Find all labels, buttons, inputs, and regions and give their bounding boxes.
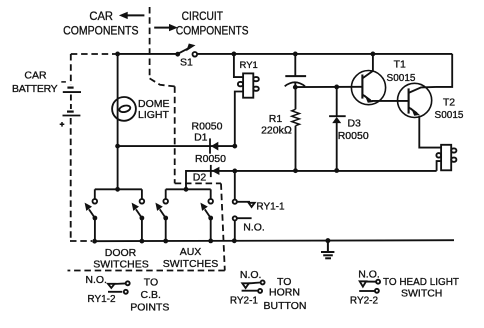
node capacitor top junction bbox=[293, 52, 298, 57]
node D1/column junction bbox=[232, 144, 237, 149]
node dome-top junction bbox=[115, 52, 120, 57]
svg-text:N.O.: N.O. bbox=[243, 221, 265, 233]
diode D1 bbox=[210, 138, 218, 153]
wire T1 base rail bbox=[295, 86, 362, 88]
svg-text:COMPONENTS: COMPONENTS bbox=[176, 23, 249, 37]
wire bottom dashed to rail bbox=[70, 240, 92, 242]
svg-text:S1: S1 bbox=[180, 57, 193, 69]
svg-text:BUTTON: BUTTON bbox=[264, 300, 307, 312]
wire ground rail bbox=[93, 240, 454, 241]
svg-text:N.O.: N.O. bbox=[85, 274, 107, 286]
wire RY1 coil feed bbox=[234, 54, 243, 77]
diode D3 bbox=[329, 87, 346, 171]
wire D1 branch bbox=[118, 145, 235, 147]
wire top rail right of S1 bbox=[197, 53, 452, 55]
svg-text:DOOR: DOOR bbox=[105, 247, 137, 259]
wire T1 emitter to T2 base bbox=[372, 100, 409, 102]
wire aux switch rail bbox=[166, 188, 211, 190]
relay coil RY1 bbox=[238, 73, 259, 97]
wire door switch rail bbox=[95, 188, 142, 190]
contact RY1-2 bbox=[108, 281, 130, 294]
svg-text:AUX: AUX bbox=[180, 246, 202, 258]
door switch SW1 bbox=[85, 189, 98, 241]
arrow left (car side) bbox=[119, 12, 144, 19]
door switch SW2 bbox=[132, 189, 145, 241]
wire battery dashed column lower bbox=[70, 118, 72, 240]
svg-text:RY2-2: RY2-2 bbox=[350, 296, 379, 307]
svg-text:N.O.: N.O. bbox=[358, 268, 380, 280]
svg-text:D1: D1 bbox=[194, 131, 208, 143]
switch S1 bbox=[175, 44, 197, 57]
svg-text:R0050: R0050 bbox=[195, 153, 226, 165]
node R1 bottom junction bbox=[293, 168, 298, 173]
svg-text:COMPONENTS: COMPONENTS bbox=[63, 23, 138, 37]
node dome/D1 junction bbox=[115, 144, 120, 149]
lamp dome light bbox=[112, 97, 136, 121]
boundary dashed bottom horizontal bbox=[68, 270, 225, 272]
svg-text:HORN: HORN bbox=[269, 287, 300, 299]
contact RY1-1 bbox=[233, 171, 255, 241]
svg-text:POINTS: POINTS bbox=[130, 301, 169, 313]
svg-text:T2: T2 bbox=[443, 97, 455, 109]
svg-text:TO: TO bbox=[144, 276, 158, 288]
svg-text:S0015: S0015 bbox=[387, 73, 416, 84]
wire T2 emitter to RY2 bbox=[419, 116, 441, 148]
svg-text:RY1: RY1 bbox=[240, 60, 258, 71]
node dome/door rail junction bbox=[115, 187, 120, 192]
node RY1 top junction bbox=[232, 52, 237, 57]
wire top rail solid to S1 bbox=[117, 53, 177, 55]
svg-text:LIGHT: LIGHT bbox=[138, 109, 170, 121]
contact RY2-2 bbox=[359, 280, 380, 293]
svg-text:TO HEAD LIGHT: TO HEAD LIGHT bbox=[383, 276, 460, 288]
node SW1 bottom bbox=[92, 239, 97, 244]
wire RY1 coil to diode column bbox=[235, 92, 243, 145]
wire D2 branch bbox=[186, 171, 235, 189]
svg-text:S0015: S0015 bbox=[435, 110, 464, 121]
node D3 top junction bbox=[334, 85, 339, 90]
transistor T1 bbox=[351, 54, 385, 105]
wire RY2 coil to rail bbox=[437, 161, 442, 171]
svg-text:T1: T1 bbox=[394, 58, 406, 70]
ground bbox=[321, 238, 334, 258]
svg-text:BATTERY: BATTERY bbox=[12, 83, 58, 95]
svg-text:D2: D2 bbox=[193, 172, 207, 184]
svg-text:RY1-2: RY1-2 bbox=[87, 294, 116, 305]
svg-text:RY2-1: RY2-1 bbox=[230, 296, 259, 307]
battery B1 bbox=[60, 82, 81, 127]
svg-text:CAR: CAR bbox=[24, 70, 47, 82]
aux switch SW4 bbox=[200, 189, 213, 241]
wire battery dashed column bbox=[70, 54, 72, 85]
node D2/column junction bbox=[232, 169, 237, 174]
boundary dashed lower vertical bbox=[221, 183, 225, 270]
boundary dashed jog bbox=[150, 78, 175, 86]
svg-text:C.B.: C.B. bbox=[140, 289, 160, 301]
node RY1-1 bottom bbox=[232, 238, 237, 243]
node SW2 bottom bbox=[140, 239, 145, 244]
svg-text:SWITCH: SWITCH bbox=[401, 287, 442, 299]
svg-text:R1: R1 bbox=[269, 113, 283, 125]
node SW3 bottom bbox=[163, 239, 168, 244]
wire dome light column bbox=[117, 54, 119, 189]
node D3 bottom junction bbox=[334, 168, 339, 173]
svg-text:D3: D3 bbox=[347, 118, 361, 130]
diode D2 bbox=[211, 165, 220, 177]
svg-text:N.O.: N.O. bbox=[240, 269, 262, 281]
transistor T2 bbox=[398, 83, 437, 117]
boundary dashed mid vertical bbox=[174, 86, 176, 183]
svg-text:220kΩ: 220kΩ bbox=[261, 125, 292, 137]
node capacitor bottom junction bbox=[293, 85, 298, 90]
wire top rail dashed (car side) bbox=[71, 53, 116, 55]
wire right side down to T2 collector bbox=[436, 54, 452, 87]
arrow right (circuit side) bbox=[154, 24, 178, 31]
resistor R1 bbox=[292, 87, 300, 171]
svg-text:SWITCHES: SWITCHES bbox=[93, 259, 148, 271]
svg-text:RY1-1: RY1-1 bbox=[256, 202, 285, 213]
contact RY2-1 bbox=[242, 280, 265, 293]
svg-text:R0050: R0050 bbox=[338, 130, 369, 142]
svg-text:SWITCHES: SWITCHES bbox=[163, 258, 218, 270]
svg-text:CIRCUIT: CIRCUIT bbox=[182, 9, 224, 23]
node SW4 bottom bbox=[208, 239, 213, 244]
wire main lower rail bbox=[235, 170, 437, 172]
boundary dashed jog right bbox=[175, 182, 221, 184]
node D2/aux rail junction bbox=[184, 187, 189, 192]
svg-text:CAR: CAR bbox=[89, 9, 113, 23]
boundary dashed line top bbox=[149, 7, 151, 78]
aux switch SW3 bbox=[155, 189, 168, 241]
relay coil RY2 bbox=[436, 145, 456, 171]
node T1 collector junction bbox=[371, 52, 376, 57]
capacitor C1 bbox=[285, 54, 306, 88]
